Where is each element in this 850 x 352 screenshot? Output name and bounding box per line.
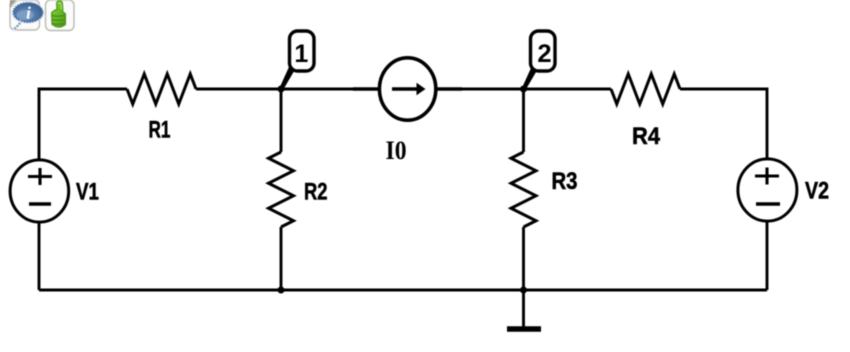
resistor R4 [611,74,680,104]
current source I0 circle [379,58,435,120]
toolbar icon: thumbs-up button [46,0,75,31]
svg-text:R2: R2 [304,179,328,206]
wire top-left (V1 top to R1) [39,89,127,159]
current source I0 left lead [353,87,378,91]
wire V2 bottom [766,221,769,290]
node 2 callout box [531,31,556,71]
svg-text:V1: V1 [76,179,99,206]
svg-text:I0: I0 [386,136,407,165]
wire V1 bottom [38,223,41,290]
node 1 callout pointer [280,66,295,90]
node 1 callout box [290,31,315,71]
wire node1 to R2 [280,89,283,152]
node 1 junction dot [278,86,285,93]
svg-text:R4: R4 [632,123,661,150]
junction dot bottom right [520,287,527,294]
bottom wire [39,289,767,292]
svg-text:2: 2 [537,40,551,68]
svg-text:R1: R1 [149,117,171,144]
junction dot bottom left [278,287,285,294]
current source I0 right lead [437,87,462,91]
resistor R2 [269,152,294,227]
wire R2 to bottom [280,227,283,290]
node 2 callout pointer [522,66,537,90]
resistor R3 [511,152,536,227]
wire R3 to bottom [522,227,525,290]
wire R1 to node 1 [196,88,281,91]
current source I0 arrow [392,87,418,91]
svg-text:V2: V2 [805,178,829,205]
wire I0 to node 2 [458,88,524,91]
ground [522,290,525,327]
voltage source V2 [738,159,797,221]
wire R4 to V2 top [680,89,767,158]
svg-text:R3: R3 [552,168,578,195]
node 2 junction dot [520,86,527,93]
wire node1 to I0 [281,88,357,91]
wire node2 to R3 [522,89,525,152]
svg-text:1: 1 [294,40,308,68]
resistor R1 [127,74,196,104]
voltage source V1 [10,160,69,222]
svg-text:i: i [26,4,31,23]
wire node 2 to R4 [524,88,612,91]
